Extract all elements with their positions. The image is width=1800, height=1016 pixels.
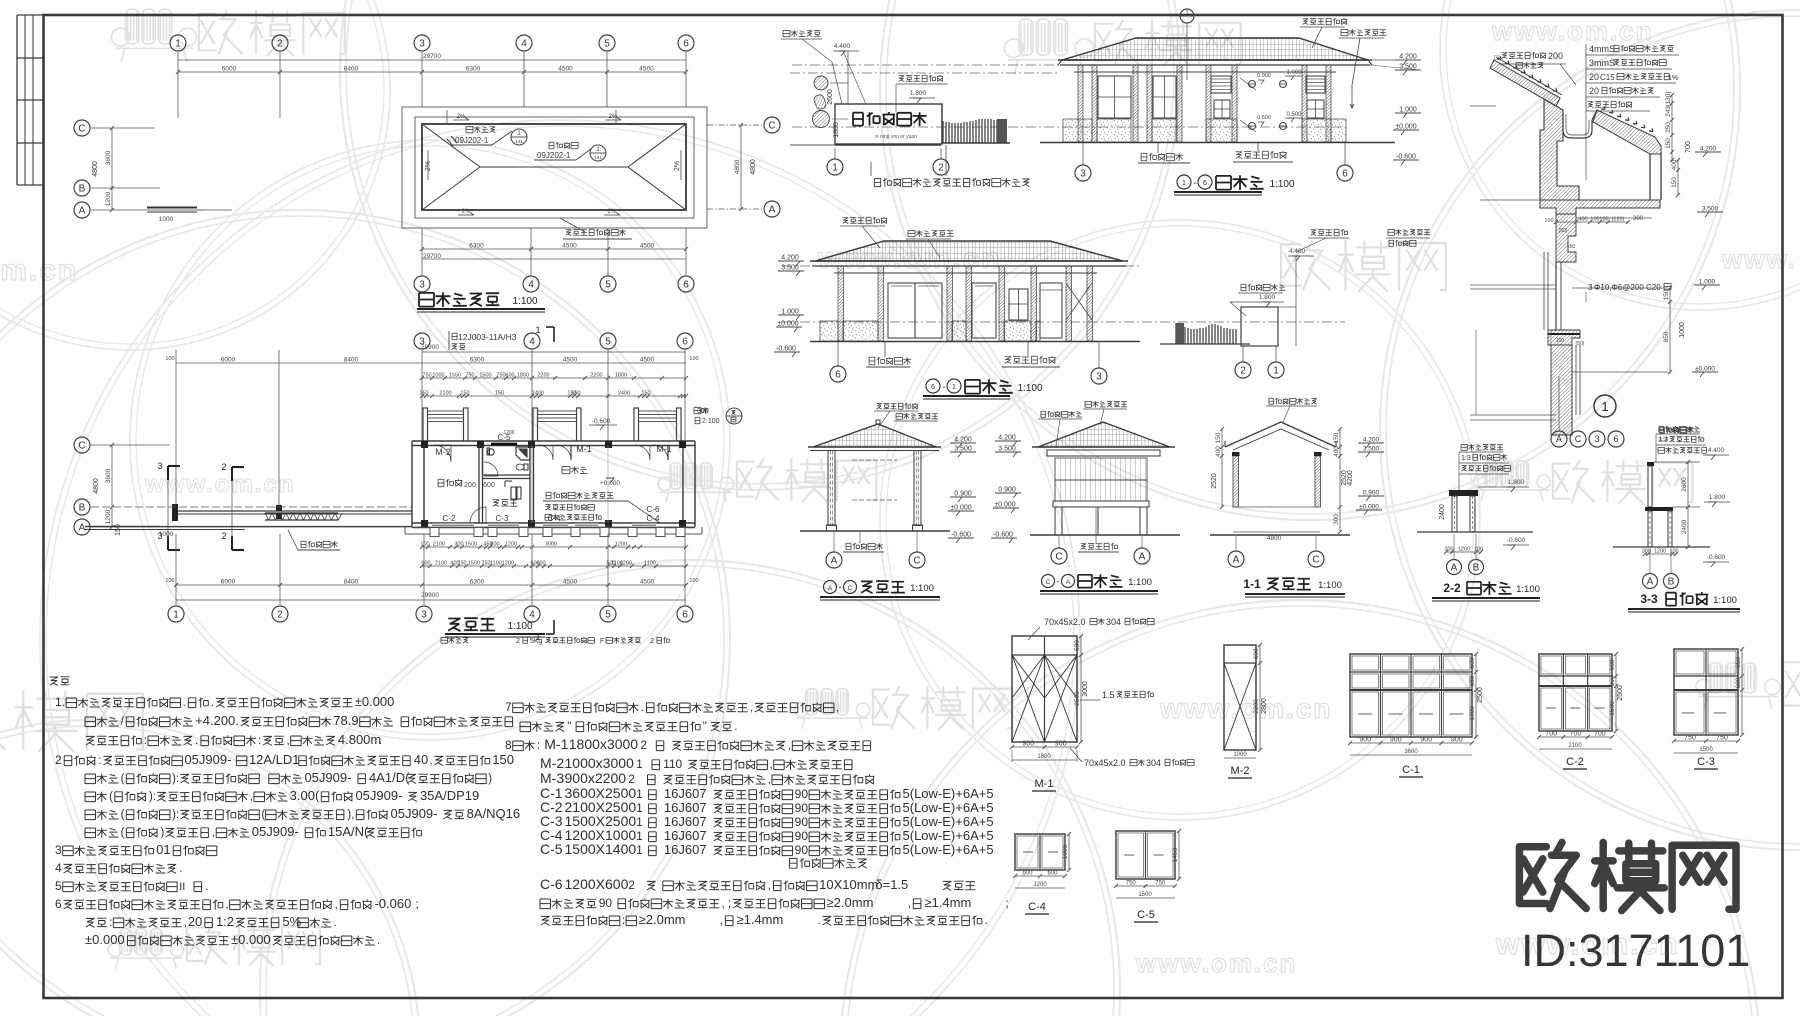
- svg-text:700: 700: [1685, 141, 1692, 153]
- svg-text:(: (: [121, 809, 125, 821]
- svg-text:5: 5: [605, 280, 611, 291]
- svg-text:,: ,: [768, 880, 771, 892]
- svg-text:100: 100: [689, 578, 698, 584]
- svg-text:500: 500: [1074, 640, 1081, 651]
- svg-text:2100: 2100: [433, 542, 445, 548]
- svg-text:1000x3000: 1000x3000: [565, 755, 635, 771]
- svg-text:4800: 4800: [734, 159, 741, 174]
- svg-text:,: ,: [335, 899, 338, 911]
- svg-text:2: 2: [1240, 366, 1246, 377]
- svg-text:1: 1: [1185, 10, 1188, 16]
- svg-text:600: 600: [1609, 659, 1616, 670]
- svg-text:1:3: 1:3: [1659, 436, 1668, 443]
- svg-text:850: 850: [1663, 331, 1670, 342]
- svg-text:5%: 5%: [282, 914, 301, 929]
- svg-text:1500X1400: 1500X1400: [565, 841, 637, 857]
- svg-text:1:3: 1:3: [1461, 455, 1471, 462]
- svg-text:1200: 1200: [1033, 882, 1047, 888]
- svg-text:,: ,: [768, 774, 771, 786]
- svg-text:B: B: [1473, 563, 1480, 574]
- svg-text:6: 6: [55, 897, 62, 911]
- svg-text:1:100: 1:100: [1516, 584, 1540, 595]
- svg-text:,: ,: [750, 702, 753, 714]
- svg-text:70x45x2.0: 70x45x2.0: [1044, 617, 1086, 627]
- svg-text:,: ,: [720, 915, 723, 927]
- svg-text:6000: 6000: [221, 579, 236, 586]
- svg-text:4.200: 4.200: [954, 437, 972, 444]
- svg-text:.: .: [734, 721, 737, 733]
- svg-text:A: A: [79, 523, 86, 534]
- svg-text:-0.060: -0.060: [374, 896, 411, 911]
- svg-text:600: 600: [1253, 648, 1260, 659]
- svg-text:(: (: [261, 809, 265, 821]
- svg-text:2: 2: [938, 163, 944, 174]
- svg-text:09J202-1: 09J202-1: [455, 136, 489, 145]
- svg-text:-0.600: -0.600: [1507, 537, 1526, 544]
- svg-text:2500: 2500: [1617, 685, 1624, 701]
- svg-text:6: 6: [1203, 180, 1207, 187]
- svg-text:2500: 2500: [1074, 691, 1081, 706]
- svg-text:3: 3: [1594, 434, 1599, 444]
- svg-text:5(Low-E)+6A+5: 5(Low-E)+6A+5: [903, 786, 994, 801]
- svg-text:≥1.4mm: ≥1.4mm: [736, 912, 783, 927]
- svg-text:A: A: [1451, 563, 1458, 574]
- svg-text:1: 1: [636, 829, 643, 843]
- svg-text:1200: 1200: [620, 561, 632, 567]
- svg-text:(130): (130): [1665, 91, 1672, 106]
- svg-text:2.100: 2.100: [702, 418, 720, 425]
- svg-text:250: 250: [1665, 122, 1672, 133]
- svg-text:C: C: [1575, 434, 1582, 444]
- svg-text:3: 3: [1096, 372, 1102, 383]
- svg-text:35A/DP19: 35A/DP19: [420, 788, 479, 803]
- svg-text:5: 5: [605, 610, 611, 621]
- svg-text:1.000: 1.000: [1699, 279, 1716, 286]
- svg-text:750: 750: [422, 373, 431, 379]
- svg-text:05J909-: 05J909-: [355, 788, 402, 803]
- svg-text:20: 20: [1589, 86, 1599, 96]
- svg-text:4500: 4500: [558, 66, 573, 73]
- svg-text:1500: 1500: [479, 373, 491, 379]
- svg-text:8: 8: [505, 738, 512, 752]
- svg-text:,: ,: [212, 827, 215, 839]
- svg-text:2: 2: [221, 531, 226, 541]
- svg-text:1200: 1200: [505, 542, 517, 548]
- svg-text:1800x3000: 1800x3000: [569, 736, 639, 752]
- svg-text:C-6: C-6: [540, 876, 563, 892]
- svg-text:400: 400: [1578, 217, 1587, 223]
- svg-text:2%: 2%: [457, 114, 466, 120]
- svg-text:-0.600: -0.600: [592, 418, 611, 425]
- svg-text:6000: 6000: [222, 66, 237, 73]
- svg-text:6: 6: [1342, 169, 1348, 180]
- svg-text:150: 150: [1567, 244, 1576, 250]
- svg-text:4.200: 4.200: [1399, 54, 1417, 61]
- svg-text:500: 500: [1469, 657, 1476, 668]
- svg-text:1500: 1500: [1609, 701, 1616, 716]
- svg-text:xi ning you er yuan: xi ning you er yuan: [875, 134, 917, 140]
- svg-text:4.400: 4.400: [834, 43, 851, 50]
- svg-text:A: A: [828, 585, 833, 592]
- svg-text:.: .: [379, 735, 382, 747]
- svg-text:750: 750: [1684, 735, 1696, 742]
- svg-text:150: 150: [460, 391, 469, 397]
- svg-text:300: 300: [1633, 216, 1644, 222]
- svg-text:8400: 8400: [344, 579, 359, 586]
- svg-text:6: 6: [683, 280, 689, 291]
- svg-text:1:100: 1:100: [1017, 383, 1042, 394]
- svg-text:400: 400: [1671, 159, 1678, 170]
- svg-text:2200: 2200: [590, 373, 602, 379]
- svg-text:),: ),: [347, 809, 354, 821]
- svg-text:(: (: [121, 773, 125, 785]
- svg-text:4: 4: [529, 337, 535, 348]
- svg-text:M-2: M-2: [1231, 765, 1250, 777]
- svg-text:3600: 3600: [105, 468, 112, 483]
- svg-text:,: ,: [908, 898, 911, 910]
- svg-text:±0.000: ±0.000: [1395, 124, 1416, 131]
- svg-text:3: 3: [421, 610, 427, 621]
- svg-text:2200: 2200: [1253, 699, 1260, 714]
- svg-text:0.500: 0.500: [1286, 112, 1302, 118]
- svg-text:C-2: C-2: [443, 514, 456, 523]
- svg-text:6000: 6000: [221, 357, 236, 364]
- svg-text:-0.600: -0.600: [1396, 154, 1416, 161]
- svg-text:0.900: 0.900: [1257, 73, 1271, 79]
- svg-text:(120): (120): [1612, 217, 1625, 223]
- svg-text:4.800m: 4.800m: [338, 732, 381, 747]
- svg-text:1: 1: [636, 815, 643, 829]
- svg-text:C-4: C-4: [1028, 901, 1046, 913]
- svg-text:2100: 2100: [439, 391, 451, 397]
- svg-text:4: 4: [528, 280, 534, 291]
- svg-text:C-6: C-6: [647, 505, 660, 514]
- svg-text:3: 3: [419, 280, 425, 291]
- svg-text:C-5: C-5: [540, 841, 563, 857]
- svg-text:5(Low-E)+6A+5: 5(Low-E)+6A+5: [903, 828, 994, 843]
- svg-text:M-1: M-1: [544, 736, 568, 752]
- svg-text:4mmS: 4mmS: [1589, 44, 1615, 54]
- svg-text:3.500: 3.500: [998, 446, 1016, 453]
- svg-text:150: 150: [571, 391, 580, 397]
- svg-text:1: 1: [636, 801, 643, 815]
- svg-text:±0.000: ±0.000: [1695, 366, 1715, 373]
- svg-text:ID:3171101: ID:3171101: [1521, 925, 1750, 976]
- svg-text:3000: 3000: [1082, 681, 1089, 697]
- svg-text:150: 150: [1215, 432, 1222, 443]
- svg-text:2: 2: [516, 638, 520, 645]
- svg-text:1200: 1200: [105, 509, 112, 524]
- svg-text:0.900: 0.900: [954, 491, 972, 498]
- svg-text:": ": [567, 721, 571, 733]
- svg-text:4.200: 4.200: [781, 255, 799, 262]
- svg-text:5(Low-E)+6A+5: 5(Low-E)+6A+5: [903, 814, 994, 829]
- svg-text:1000: 1000: [159, 216, 174, 223]
- svg-text:2: 2: [628, 772, 635, 786]
- svg-text:1.5: 1.5: [1102, 690, 1115, 700]
- svg-text:16J607: 16J607: [664, 828, 707, 843]
- svg-text:100: 100: [1556, 338, 1565, 344]
- svg-text:C-1: C-1: [1402, 764, 1420, 776]
- svg-text:≥2.0mm: ≥2.0mm: [639, 912, 686, 927]
- svg-text:,: ,: [788, 740, 791, 752]
- svg-text:10X10mm: 10X10mm: [819, 877, 878, 892]
- svg-text:4500: 4500: [639, 66, 654, 73]
- svg-text:A: A: [1139, 552, 1146, 563]
- svg-text:20: 20: [1589, 72, 1599, 82]
- svg-text:1:100: 1:100: [512, 296, 537, 307]
- svg-text:www.om.cn: www.om.cn: [1135, 948, 1298, 978]
- svg-text:200: 200: [464, 482, 476, 489]
- svg-text:,: ,: [836, 702, 839, 714]
- svg-text:300: 300: [1333, 514, 1340, 525]
- svg-text:C: C: [1046, 579, 1051, 586]
- svg-text:5(Low-E)+6A+5: 5(Low-E)+6A+5: [903, 842, 994, 857]
- svg-text:900: 900: [1451, 737, 1463, 744]
- svg-text:1: 1: [832, 163, 838, 174]
- svg-text:±0.000: ±0.000: [994, 502, 1015, 509]
- svg-text:750: 750: [1716, 735, 1728, 742]
- svg-text:):: ):: [172, 809, 179, 821]
- svg-text:±0.000: ±0.000: [1359, 504, 1379, 511]
- svg-text:304: 304: [1106, 617, 1121, 627]
- svg-text::: :: [258, 735, 261, 747]
- svg-text:C: C: [78, 441, 85, 452]
- svg-text:29700: 29700: [423, 253, 441, 260]
- svg-text:8400: 8400: [344, 357, 359, 364]
- svg-text:100: 100: [420, 542, 429, 548]
- svg-text:≥1.4mm: ≥1.4mm: [924, 895, 971, 910]
- svg-text:3.500: 3.500: [781, 265, 799, 272]
- svg-text:8400: 8400: [344, 66, 359, 73]
- svg-text:1: 1: [1601, 399, 1608, 414]
- svg-text:5Kg: 5Kg: [530, 638, 543, 645]
- svg-text:1.800: 1.800: [1508, 479, 1525, 486]
- svg-text:750: 750: [1155, 881, 1166, 887]
- svg-text:5: 5: [55, 879, 62, 893]
- svg-text:2%: 2%: [674, 161, 681, 171]
- svg-text:±0.000: ±0.000: [355, 694, 395, 709]
- svg-text:150: 150: [1665, 138, 1672, 149]
- svg-text:": ": [703, 721, 707, 733]
- svg-text:900: 900: [1055, 741, 1067, 748]
- svg-text:±0.000: ±0.000: [231, 932, 271, 947]
- svg-text:A: A: [79, 206, 86, 217]
- svg-text:243: 243: [1665, 106, 1672, 117]
- svg-text:4500: 4500: [563, 579, 578, 586]
- svg-text:1800: 1800: [615, 373, 627, 379]
- svg-text:1.800: 1.800: [910, 90, 927, 97]
- svg-text:,: ,: [225, 899, 228, 911]
- svg-text:3mmS: 3mmS: [1589, 58, 1615, 68]
- svg-text:1000: 1000: [159, 531, 174, 538]
- svg-text:3000: 3000: [545, 542, 557, 548]
- svg-text:-: -: [1193, 178, 1196, 189]
- svg-text:C: C: [1055, 552, 1062, 563]
- svg-text:M-2: M-2: [540, 755, 564, 771]
- svg-text:A: A: [1647, 577, 1654, 588]
- svg-text:304: 304: [1146, 758, 1161, 768]
- svg-text:400: 400: [1215, 446, 1222, 457]
- svg-text:150: 150: [1663, 289, 1670, 300]
- svg-text:900: 900: [1390, 737, 1402, 744]
- svg-text:600: 600: [421, 561, 430, 567]
- svg-text:300: 300: [454, 542, 463, 548]
- svg-text:om.cn: om.cn: [0, 254, 78, 287]
- svg-text:1:100: 1:100: [1318, 580, 1342, 591]
- svg-text:≥2.0mm: ≥2.0mm: [827, 895, 874, 910]
- svg-text:,: ,: [184, 917, 187, 929]
- svg-text:09J202-1: 09J202-1: [537, 151, 571, 160]
- svg-text:www.om.cn: www.om.cn: [1491, 16, 1654, 46]
- svg-text:2100: 2100: [435, 561, 447, 567]
- svg-text:A: A: [1556, 434, 1562, 444]
- svg-text:90: 90: [795, 843, 809, 857]
- svg-text:900: 900: [1359, 737, 1371, 744]
- svg-text:M-1: M-1: [576, 444, 592, 454]
- svg-text:2%: 2%: [609, 114, 618, 120]
- svg-text:4500: 4500: [563, 357, 578, 364]
- svg-text:70x45x2.0: 70x45x2.0: [1084, 758, 1126, 768]
- svg-text:1200X600: 1200X600: [565, 876, 629, 892]
- svg-text:110: 110: [663, 757, 682, 771]
- svg-text:A: A: [1233, 555, 1240, 566]
- svg-text:0.500: 0.500: [1257, 115, 1271, 121]
- svg-text:1.: 1.: [55, 695, 65, 709]
- svg-text:400: 400: [1333, 446, 1340, 457]
- svg-text:900: 900: [1022, 741, 1034, 748]
- svg-text:90: 90: [795, 801, 809, 815]
- svg-text:750: 750: [465, 373, 474, 379]
- svg-text:100: 100: [165, 356, 174, 362]
- svg-text::: :: [537, 740, 540, 752]
- svg-text:1000: 1000: [1062, 844, 1069, 859]
- svg-text:100: 100: [165, 578, 174, 584]
- svg-text:1100: 1100: [490, 561, 502, 567]
- svg-text:6: 6: [835, 370, 841, 381]
- svg-text:141: 141: [594, 155, 602, 160]
- svg-text:16J607: 16J607: [664, 842, 707, 857]
- svg-text:2%: 2%: [425, 161, 432, 171]
- svg-text:600: 600: [1047, 871, 1058, 877]
- svg-text:4800: 4800: [1267, 535, 1282, 542]
- svg-text:-0.600: -0.600: [993, 532, 1013, 539]
- svg-text:;: ;: [1005, 898, 1008, 910]
- svg-text:0.900: 0.900: [1363, 490, 1380, 497]
- svg-text:2100: 2100: [1568, 743, 1582, 749]
- svg-text:2500: 2500: [1477, 687, 1484, 703]
- svg-text:150: 150: [1671, 177, 1678, 188]
- svg-text:.: .: [179, 863, 182, 875]
- svg-text:5: 5: [604, 39, 610, 50]
- svg-text:8A/NQ16: 8A/NQ16: [467, 806, 520, 821]
- svg-text:1-1: 1-1: [1243, 577, 1261, 591]
- svg-text:29900: 29900: [421, 344, 439, 351]
- svg-text:4: 4: [521, 39, 527, 50]
- svg-text:.: .: [818, 915, 821, 927]
- svg-text:7: 7: [505, 700, 512, 714]
- svg-text:±0.000: ±0.000: [777, 321, 798, 328]
- svg-text:1000: 1000: [1679, 322, 1686, 338]
- svg-text:+0.000: +0.000: [600, 480, 620, 487]
- svg-text:300: 300: [1609, 675, 1616, 686]
- svg-text:1200: 1200: [1458, 547, 1470, 553]
- svg-text:2: 2: [221, 462, 226, 472]
- svg-text:1800: 1800: [833, 122, 840, 138]
- svg-text:C: C: [1312, 555, 1319, 566]
- svg-text:100: 100: [1474, 547, 1483, 553]
- svg-text:6300: 6300: [466, 66, 481, 73]
- svg-text::: :: [98, 755, 101, 767]
- svg-text:3: 3: [419, 39, 425, 50]
- svg-text:650: 650: [1735, 657, 1742, 668]
- svg-text::: :: [622, 915, 625, 927]
- svg-text:1: 1: [636, 843, 643, 857]
- svg-text:1800: 1800: [517, 373, 529, 379]
- svg-text:2: 2: [640, 738, 647, 752]
- svg-text:C: C: [848, 585, 853, 592]
- svg-text:1200: 1200: [1654, 549, 1666, 555]
- svg-text:(: (: [121, 827, 125, 839]
- svg-text:1200: 1200: [615, 542, 627, 548]
- svg-text:6: 6: [682, 337, 688, 348]
- svg-text:M-3: M-3: [540, 770, 564, 786]
- svg-text:B: B: [79, 184, 86, 195]
- svg-text:3: 3: [1080, 169, 1086, 180]
- svg-text:78.9: 78.9: [333, 713, 358, 728]
- svg-text:1.800: 1.800: [1259, 294, 1276, 301]
- svg-text:1500: 1500: [1699, 747, 1713, 753]
- svg-text:B: B: [1668, 577, 1675, 588]
- svg-text:3-3: 3-3: [1640, 592, 1658, 606]
- svg-text:):: ):: [149, 791, 156, 803]
- svg-text:1:100: 1:100: [1269, 179, 1294, 190]
- svg-text:.: .: [377, 935, 380, 947]
- svg-text:29700: 29700: [423, 53, 441, 60]
- svg-text:-: -: [1057, 576, 1060, 586]
- svg-text:6300: 6300: [470, 579, 485, 586]
- svg-text:141: 141: [515, 139, 523, 144]
- svg-text:1300: 1300: [1469, 706, 1476, 721]
- svg-text:M-2: M-2: [435, 447, 451, 457]
- svg-text:180: 180: [1599, 217, 1608, 223]
- svg-text:www.om.cn: www.om.cn: [144, 471, 295, 498]
- svg-text:6300: 6300: [470, 357, 485, 364]
- svg-text::: :: [144, 735, 147, 747]
- svg-text:1: 1: [636, 757, 643, 771]
- svg-text:1: 1: [173, 610, 179, 621]
- svg-text:C-3: C-3: [496, 514, 509, 523]
- svg-text:,: ,: [250, 791, 253, 803]
- svg-text:6: 6: [931, 384, 935, 391]
- svg-text:δ=1.5: δ=1.5: [875, 877, 908, 892]
- svg-text:4500: 4500: [640, 357, 655, 364]
- svg-text:2: 2: [650, 638, 654, 645]
- svg-text:100: 100: [1544, 218, 1553, 224]
- svg-text:600: 600: [536, 561, 545, 567]
- svg-text:±0.000: ±0.000: [85, 932, 125, 947]
- svg-text:1:100: 1:100: [910, 583, 934, 594]
- svg-text:6: 6: [683, 39, 689, 50]
- svg-text:3: 3: [55, 843, 62, 857]
- svg-text:1: 1: [1273, 366, 1279, 377]
- svg-text:.: .: [334, 917, 337, 929]
- svg-text:3.500: 3.500: [954, 446, 972, 453]
- svg-text:600: 600: [483, 482, 495, 489]
- svg-text:700: 700: [1570, 731, 1582, 738]
- svg-text:750: 750: [496, 373, 505, 379]
- svg-text:3.500: 3.500: [1363, 446, 1380, 453]
